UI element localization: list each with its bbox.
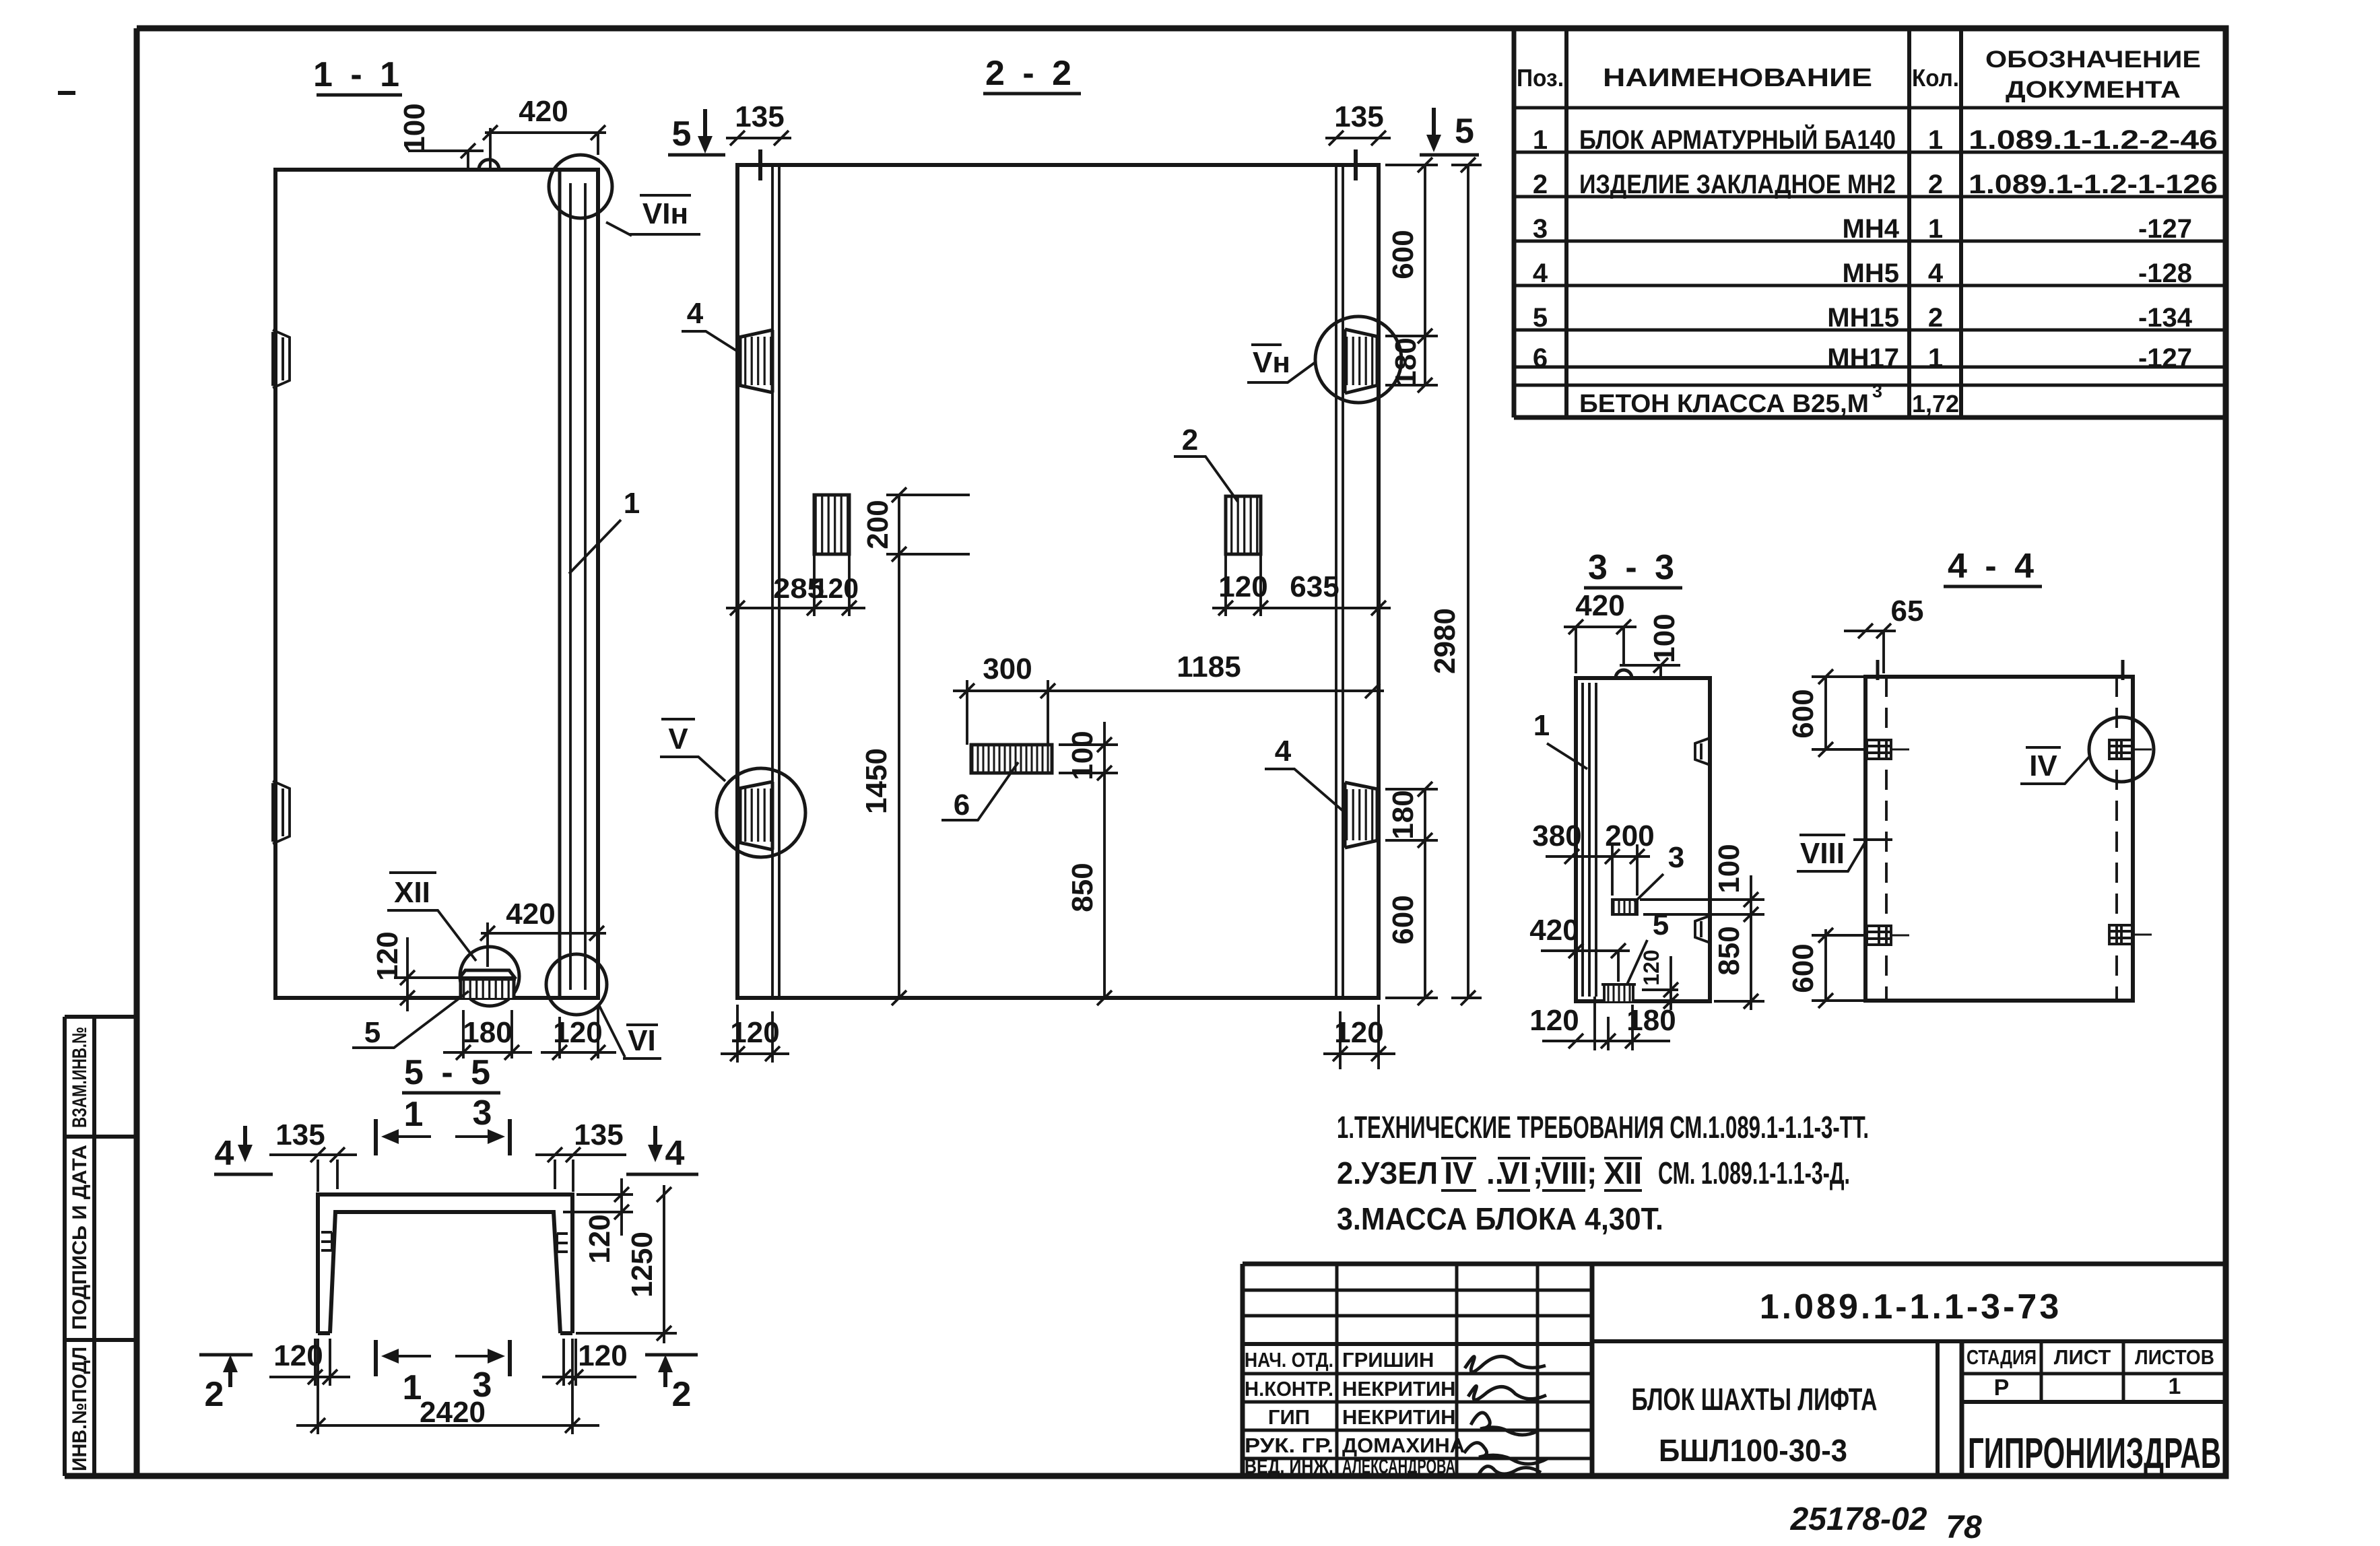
dimension 120 / 180 (below 3-3) <box>1529 997 1676 1050</box>
embedded part МН15 (pos5) in 1-1 bottom <box>459 970 516 998</box>
label VI <box>599 1005 661 1058</box>
dimension 120 (5-5 bottom right) <box>542 1339 636 1386</box>
svg-text:2: 2 <box>1928 303 1943 333</box>
title block grid <box>1243 1264 2226 1476</box>
svg-text:4: 4 <box>1533 259 1548 288</box>
svg-text:3: 3 <box>473 1094 492 1133</box>
svg-text:ИНВ.№ПОДЛ: ИНВ.№ПОДЛ <box>69 1347 91 1471</box>
view title 2-2 <box>983 54 1081 94</box>
svg-text:VIII: VIII <box>1800 837 1845 870</box>
dimension 135 (top right) <box>1325 100 1391 145</box>
svg-text:Vн: Vн <box>1253 346 1290 379</box>
section marker 1 (bottom) <box>376 1340 431 1407</box>
key mark left leg <box>321 1232 332 1250</box>
svg-text:3: 3 <box>1533 214 1548 244</box>
dimension 420 (3-3 top) <box>1564 589 1637 673</box>
svg-text:;: ; <box>1587 1155 1597 1190</box>
svg-text:120: 120 <box>553 1016 602 1049</box>
svg-text:БЛОК ШАХТЫ ЛИФТА: БЛОК ШАХТЫ ЛИФТА <box>1632 1382 1878 1417</box>
svg-text:АЛЕКСАНДРОВА: АЛЕКСАНДРОВА <box>1342 1454 1455 1478</box>
svg-text:1450: 1450 <box>860 748 893 814</box>
svg-text:120: 120 <box>1639 949 1663 985</box>
section marker 4 (right) <box>626 1126 698 1174</box>
left wall inner double line <box>772 165 779 998</box>
svg-text:5: 5 <box>1533 303 1548 333</box>
svg-text:1.ТЕХНИЧЕСКИЕ ТРЕБОВАНИЯ СМ.1.: 1.ТЕХНИЧЕСКИЕ ТРЕБОВАНИЯ СМ.1.089.1-1.1-… <box>1337 1110 1869 1145</box>
leader label 5 (3-3 bottom embed) <box>1626 908 1669 986</box>
note 2 узел <box>1337 1155 1850 1190</box>
dimension 850 (3-3 right rotated) <box>1713 926 1764 1010</box>
dimension 200 / 1450 vertical chain <box>860 488 970 1005</box>
svg-text:4 - 4: 4 - 4 <box>1948 547 2038 586</box>
svg-text:Н.КОНТР.: Н.КОНТР. <box>1245 1377 1333 1401</box>
svg-text:2: 2 <box>205 1375 224 1414</box>
section marker 4 (left) <box>214 1126 273 1174</box>
right wall inner double line <box>1336 165 1343 998</box>
svg-text:120: 120 <box>371 931 404 980</box>
svg-text:1: 1 <box>1928 343 1943 373</box>
svg-text:РУК. ГР.: РУК. ГР. <box>1245 1434 1333 1457</box>
svg-text:ПОДПИСЬ И ДАТА: ПОДПИСЬ И ДАТА <box>69 1145 91 1330</box>
connector МН5 4-4 right top <box>2109 740 2134 759</box>
svg-text:300: 300 <box>983 652 1032 685</box>
section marker 5 (top right of 1-1) <box>668 109 725 155</box>
svg-text:1185: 1185 <box>1177 650 1241 683</box>
svg-text:850: 850 <box>1066 863 1099 912</box>
svg-text:ИЗДЕЛИЕ ЗАКЛАДНОЕ МН2: ИЗДЕЛИЕ ЗАКЛАДНОЕ МН2 <box>1579 170 1896 199</box>
svg-text:600: 600 <box>1787 943 1820 993</box>
lifting hook 1-1 <box>479 160 499 170</box>
svg-text:200: 200 <box>1605 819 1654 852</box>
svg-text:Р: Р <box>1994 1375 2010 1401</box>
svg-text:180: 180 <box>1387 790 1420 839</box>
section marker 3 (bottom) <box>455 1340 510 1405</box>
svg-text:2: 2 <box>1928 170 1943 199</box>
svg-text:НЕКРИТИН: НЕКРИТИН <box>1342 1377 1456 1401</box>
embedded part МН4 (pos 3) <box>1612 900 1637 914</box>
svg-text:600: 600 <box>1387 895 1420 944</box>
keyway notch upper left edge <box>273 330 290 388</box>
svg-text:135: 135 <box>574 1118 623 1151</box>
svg-text:3: 3 <box>1668 841 1684 874</box>
svg-text:420: 420 <box>1575 589 1624 622</box>
svg-text:1 - 1: 1 - 1 <box>313 55 403 94</box>
svg-text:XII: XII <box>1604 1155 1642 1190</box>
dimension 600 (4-4 bottom left) <box>1787 928 1867 1008</box>
key mark right leg <box>557 1234 568 1252</box>
svg-text:120: 120 <box>1218 570 1267 603</box>
svg-text:ВЕД. ИНЖ.: ВЕД. ИНЖ. <box>1245 1454 1333 1478</box>
svg-text:135: 135 <box>735 100 784 133</box>
svg-text:420: 420 <box>506 898 555 931</box>
dimension 1250 (5-5 right rotated) <box>576 1185 677 1343</box>
wall inner edge line 1-1 <box>558 170 562 998</box>
svg-text:1: 1 <box>1533 125 1548 155</box>
leader label 4 (to 2-2 left wall embed) <box>682 297 739 352</box>
svg-text:2420: 2420 <box>420 1396 486 1429</box>
svg-text:1250: 1250 <box>626 1232 659 1298</box>
svg-text:65: 65 <box>1891 595 1924 628</box>
svg-text:2: 2 <box>1533 170 1548 199</box>
dimension 120 (rotated, 1-1 bottom) <box>371 931 513 1011</box>
dimension 420 (1-1 bottom) <box>480 898 606 967</box>
section trace ticks top <box>1878 660 2123 680</box>
svg-text:600: 600 <box>1787 689 1820 738</box>
embedded part МН5 on right wall top (Vн) <box>1345 329 1378 393</box>
rebar lines 1-1 <box>570 183 585 990</box>
svg-text:НАИМЕНОВАНИЕ: НАИМЕНОВАНИЕ <box>1603 64 1872 92</box>
svg-text:НАЧ. ОТД.: НАЧ. ОТД. <box>1245 1348 1333 1372</box>
section marker 2 (bottom right) <box>645 1355 698 1414</box>
svg-text:2: 2 <box>672 1375 692 1414</box>
svg-text:2980: 2980 <box>1428 608 1461 674</box>
svg-text:100: 100 <box>1648 613 1681 663</box>
keyway notch lower left edge <box>273 781 290 844</box>
svg-text:Кол.: Кол. <box>1912 64 1959 92</box>
signatures squiggles <box>1464 1356 1548 1474</box>
parts table grid <box>1514 28 2226 417</box>
keyway notch right edge lower <box>1695 916 1710 943</box>
svg-text:5: 5 <box>672 114 692 154</box>
svg-text:БШЛ100-30-3: БШЛ100-30-3 <box>1659 1433 1847 1468</box>
svg-text:3: 3 <box>1872 381 1882 401</box>
hidden dashed line right <box>2115 677 2118 1001</box>
svg-text:180: 180 <box>1626 1004 1676 1037</box>
svg-text:1.089.1-1.2-1-126: 1.089.1-1.2-1-126 <box>1969 170 2218 199</box>
floating embed МН2 left (near 200 dim) <box>814 495 849 554</box>
svg-text:135: 135 <box>275 1118 325 1151</box>
svg-text:6: 6 <box>954 788 970 821</box>
svg-text:600: 600 <box>1387 230 1420 279</box>
svg-text:Поз.: Поз. <box>1517 64 1564 92</box>
dimension 65 <box>1844 595 1923 673</box>
section 5-5 trace marks on top edge <box>760 149 1356 180</box>
leader label 4 (right wall bottom embed) <box>1265 735 1344 811</box>
svg-text:1: 1 <box>404 1095 424 1134</box>
embedded part on left wall bottom (V) <box>739 782 772 850</box>
hidden dashed line left <box>1885 677 1888 1001</box>
dimension 100 (3-3 top rotated) <box>1620 613 1681 678</box>
detail circle XII (bottom embed) <box>460 947 519 1006</box>
svg-text:4: 4 <box>1275 735 1292 768</box>
panel outline 1-1 <box>275 170 598 998</box>
svg-text:4: 4 <box>665 1134 685 1173</box>
section marker 2 (bottom left) <box>199 1355 253 1414</box>
dimension 420 (top) <box>483 95 606 168</box>
dimension 180 (below 1-1) <box>443 1010 532 1060</box>
channel outline 5-5 <box>318 1195 572 1333</box>
leader label 5 (bottom embed) <box>352 991 469 1049</box>
svg-text:IV: IV <box>2029 749 2057 782</box>
svg-text:V: V <box>668 722 688 755</box>
svg-text:4: 4 <box>1928 259 1944 288</box>
dimension 120 (5-5 right rotated) <box>563 1178 633 1264</box>
right dimension chain 600/180/180/600 <box>1385 158 1438 1005</box>
svg-text:1.089.1-1.2-2-46: 1.089.1-1.2-2-46 <box>1969 125 2218 155</box>
svg-text:VIн: VIн <box>642 197 688 230</box>
svg-text:5: 5 <box>364 1016 381 1049</box>
svg-text:6: 6 <box>1533 343 1548 373</box>
panel outline 4-4 <box>1865 677 2133 1001</box>
panel outline 2-2 <box>737 165 1379 998</box>
embedded part МН15 (pos 5, 3-3 bottom) <box>1601 984 1636 1001</box>
dimension 100 (3-3 right rotated) <box>1640 844 1764 929</box>
svg-text:4: 4 <box>687 297 704 330</box>
svg-text:200: 200 <box>861 500 894 549</box>
svg-text:2 - 2: 2 - 2 <box>985 54 1076 93</box>
detail circle VI (bottom) <box>546 954 607 1015</box>
svg-text:120: 120 <box>730 1016 779 1049</box>
svg-text:БЕТОН КЛАССА В25,М: БЕТОН КЛАССА В25,М <box>1579 390 1869 418</box>
channel inner outline 5-5 <box>330 1212 560 1333</box>
svg-text:МН4: МН4 <box>1843 214 1900 244</box>
svg-text:120: 120 <box>273 1339 323 1372</box>
svg-text:135: 135 <box>1334 100 1383 133</box>
svg-text:25178-02: 25178-02 <box>1790 1502 1927 1537</box>
svg-text:IV: IV <box>1444 1155 1474 1190</box>
leader label 2 <box>1174 424 1238 502</box>
svg-text:2.УЗЕЛ: 2.УЗЕЛ <box>1337 1155 1438 1190</box>
dimension 420 (3-3 lower left) <box>1529 914 1630 982</box>
svg-text:1: 1 <box>1533 709 1550 742</box>
svg-text:5: 5 <box>1455 112 1474 151</box>
section marker 1 (top) <box>376 1095 431 1155</box>
svg-text:БЛОК АРМАТУРНЫЙ БА140: БЛОК АРМАТУРНЫЙ БА140 <box>1579 124 1896 155</box>
left margin stamp strip <box>65 1017 137 1476</box>
dimension 120 (rotated right of embed 5) <box>1639 949 1678 1010</box>
label VIII with wall tick <box>1797 835 1892 871</box>
svg-text:VIII: VIII <box>1540 1155 1587 1190</box>
dimension 300 / 1185 <box>953 650 1384 745</box>
svg-text:ДОМАХИНА: ДОМАХИНА <box>1342 1434 1465 1457</box>
svg-text:1.089.1-1.1-3-73: 1.089.1-1.1-3-73 <box>1760 1287 2062 1326</box>
svg-text:3 - 3: 3 - 3 <box>1588 548 1678 587</box>
label V (to 2-2 left wall circle) <box>660 719 725 781</box>
dimension 2420 <box>296 1339 599 1434</box>
leader label 6 <box>941 762 1018 821</box>
dimension 100 (element 6 height) <box>1059 722 1118 798</box>
svg-text:VI: VI <box>1499 1155 1528 1190</box>
dimension 850 <box>1066 798 1112 1005</box>
svg-text:ОБОЗНАЧЕНИЕ: ОБОЗНАЧЕНИЕ <box>1985 46 2201 73</box>
dimension 380 / 200 (3-3) <box>1532 819 1654 896</box>
section marker 5 (top right of 2-2) <box>1420 108 1479 155</box>
svg-text:МН5: МН5 <box>1843 259 1899 288</box>
label Vн <box>1247 345 1315 382</box>
floating embed МН17 (pos 6) <box>971 745 1052 773</box>
dimension 135 (top left) <box>726 100 791 145</box>
panel outline 3-3 <box>1576 678 1710 1001</box>
connector МН5 4-4 left bottom <box>1867 926 1891 945</box>
svg-text:VI: VI <box>628 1024 656 1057</box>
svg-text:120: 120 <box>1334 1016 1383 1049</box>
svg-text:ГИП: ГИП <box>1268 1405 1310 1429</box>
label XII <box>387 873 476 961</box>
label IV <box>2020 747 2090 784</box>
keyway notch right edge upper <box>1695 738 1710 765</box>
svg-text:МН17: МН17 <box>1827 343 1899 373</box>
svg-text:120: 120 <box>813 572 859 604</box>
svg-text:СМ. 1.089.1-1.1-3-Д.: СМ. 1.089.1-1.1-3-Д. <box>1658 1155 1850 1190</box>
svg-text:1: 1 <box>2169 1374 2181 1399</box>
svg-text:МН15: МН15 <box>1827 303 1899 333</box>
svg-text:1: 1 <box>1928 214 1943 244</box>
svg-text:420: 420 <box>519 95 568 128</box>
leader label 1 (3-3 rebar) <box>1533 709 1587 769</box>
embedded part МН5 on left wall top (pos 4) <box>739 330 772 393</box>
svg-text:100: 100 <box>1713 844 1746 893</box>
svg-text:2: 2 <box>1182 424 1198 457</box>
svg-text:-127: -127 <box>2138 214 2192 244</box>
svg-text:ГИПРОНИИЗДРАВ: ГИПРОНИИЗДРАВ <box>1968 1429 2221 1477</box>
dimension 120 (below 1-1 right) <box>541 1005 616 1060</box>
rebar lines 3-3 <box>1583 683 1596 997</box>
dimension 100 (top, rotated) <box>398 103 484 171</box>
view title 5-5 <box>402 1053 500 1093</box>
svg-text:3.МАССА БЛОКА 4,30Т.: 3.МАССА БЛОКА 4,30Т. <box>1337 1201 1663 1236</box>
svg-text:420: 420 <box>1529 914 1579 947</box>
svg-text:1: 1 <box>1928 125 1943 155</box>
extension lines from connectors 4-4 <box>1891 749 2152 935</box>
svg-text:ЛИСТ: ЛИСТ <box>2054 1345 2111 1369</box>
svg-text:-127: -127 <box>2138 343 2192 373</box>
dimension 120 (bottom right wall) <box>1323 1005 1395 1069</box>
lifting hook 3-3 <box>1616 670 1632 678</box>
svg-text:СТАДИЯ: СТАДИЯ <box>1966 1345 2037 1369</box>
dimension 135 (5-5 top right) <box>535 1118 626 1192</box>
dimension 135 (5-5 top left) <box>269 1118 357 1192</box>
view title 4-4 <box>1944 547 2042 586</box>
svg-text:850: 850 <box>1713 926 1746 975</box>
embedded part МН5 on right wall bottom (pos 4) <box>1345 782 1378 848</box>
svg-text:100: 100 <box>1066 731 1099 780</box>
dimension 120 (5-5 bottom left) <box>269 1339 350 1386</box>
svg-text:380: 380 <box>1532 819 1581 852</box>
dimension 120 (bottom left wall) <box>721 1005 789 1063</box>
svg-text:1,72: 1,72 <box>1912 390 1959 417</box>
floating embed МН2 right (pos 2) <box>1226 496 1261 554</box>
svg-text:ВЗАМ.ИНВ.№: ВЗАМ.ИНВ.№ <box>69 1027 91 1128</box>
svg-text:4: 4 <box>215 1134 234 1173</box>
svg-text:НЕКРИТИН: НЕКРИТИН <box>1342 1405 1456 1429</box>
dimension 600 (4-4 top left) <box>1787 669 1867 757</box>
leader label 1 (rebar block) <box>569 487 640 574</box>
svg-text:ЛИСТОВ: ЛИСТОВ <box>2135 1345 2214 1369</box>
label VIн <box>606 195 700 236</box>
dimension 120 / 635 (right) <box>1212 554 1391 616</box>
section marker 3 (top) <box>455 1094 510 1155</box>
svg-text:180: 180 <box>463 1016 512 1049</box>
registration dash top-left <box>58 91 75 95</box>
view title 3-3 <box>1584 548 1682 588</box>
svg-text:635: 635 <box>1290 570 1339 603</box>
svg-text:ГРИШИН: ГРИШИН <box>1342 1348 1434 1372</box>
leader label 3 <box>1634 841 1684 902</box>
svg-text:100: 100 <box>398 103 431 152</box>
svg-text:120: 120 <box>578 1339 627 1372</box>
detail circle VIн (top) <box>549 155 612 218</box>
connector МН5 4-4 right bottom <box>2109 925 2134 944</box>
svg-text:XII: XII <box>394 876 430 909</box>
svg-text:5 - 5: 5 - 5 <box>404 1053 494 1092</box>
detail circle Vн <box>1315 316 1401 403</box>
svg-text:1: 1 <box>624 487 640 520</box>
svg-text:78: 78 <box>1946 1510 1982 1545</box>
overall dimension 2980 <box>1428 158 1482 1005</box>
detail circle V <box>717 768 805 857</box>
connector МН5 4-4 left top <box>1867 740 1891 759</box>
dimension 285 / 120 (left) <box>726 554 865 616</box>
svg-text:ДОКУМЕНТА: ДОКУМЕНТА <box>2006 77 2181 103</box>
svg-text:-134: -134 <box>2138 303 2193 333</box>
detail circle IV <box>2089 717 2154 782</box>
svg-text:120: 120 <box>1529 1004 1579 1037</box>
svg-text:180: 180 <box>1389 337 1422 386</box>
view title 1-1 <box>313 55 403 95</box>
svg-text:-128: -128 <box>2138 259 2192 288</box>
svg-text:120: 120 <box>583 1214 616 1263</box>
